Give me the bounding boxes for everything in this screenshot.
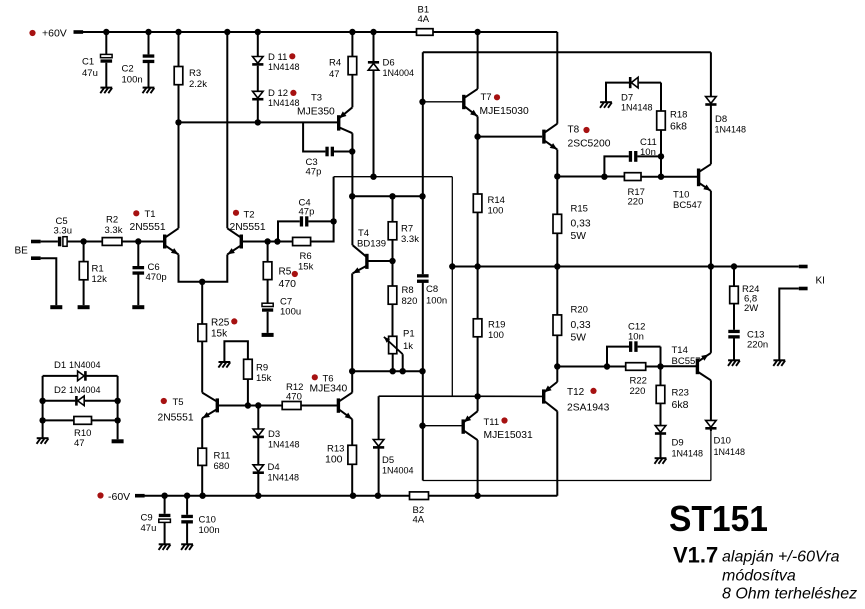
ground below C13 — [728, 359, 740, 361]
svg-text:100n: 100n — [199, 525, 220, 536]
svg-text:T7: T7 — [481, 92, 492, 103]
svg-text:+60V: +60V — [42, 28, 67, 40]
svg-text:BC557: BC557 — [672, 356, 701, 367]
capacitor C9 47u — [164, 496, 166, 514]
svg-text:alapján +/-60Vra: alapján +/-60Vra — [722, 549, 840, 566]
wire T7 emitter to T8 base node — [477, 116, 479, 136]
wire T2 collector to +60V rail — [226, 32, 228, 228]
svg-text:12k: 12k — [92, 274, 108, 285]
wire R12 to T6 base — [301, 405, 337, 407]
resistor R20 0,33 5W — [556, 267, 558, 315]
wire T2 base wire — [241, 241, 292, 243]
svg-text:ST151: ST151 — [669, 498, 768, 539]
wire R6 to feedback riser — [311, 177, 334, 242]
wire T4 emitter column — [351, 273, 353, 392]
wire D1-net right leg — [117, 376, 119, 439]
svg-text:6k8: 6k8 — [670, 121, 687, 133]
svg-text:1N4148: 1N4148 — [268, 440, 300, 450]
svg-text:R9: R9 — [256, 363, 268, 374]
wire T11 collector to -60V rail — [477, 440, 479, 496]
node junction R18 on T10 base wire — [658, 174, 664, 180]
ground below D1-net left leg — [37, 437, 49, 439]
svg-text:1N4148: 1N4148 — [714, 447, 746, 457]
svg-text:470: 470 — [279, 278, 297, 290]
node junction R15 on mid rail — [554, 263, 560, 269]
node junction T11 base on bus — [419, 423, 425, 429]
svg-text:2SA1943: 2SA1943 — [567, 403, 610, 414]
node junction R3/T3-base-wire — [175, 119, 181, 125]
svg-text:C8: C8 — [426, 284, 438, 295]
svg-text:R7: R7 — [401, 224, 413, 235]
wire T8 base wire — [478, 136, 543, 138]
resistor R13 100 — [351, 419, 353, 445]
resistor R1 12k — [83, 242, 85, 262]
diode D12 1N4148 — [253, 91, 264, 98]
wire R18 node to base wire — [660, 156, 662, 176]
wire -60V terminal stub — [135, 494, 145, 498]
svg-text:47p: 47p — [299, 207, 315, 218]
svg-text:3.3k: 3.3k — [105, 225, 123, 236]
wire BE lower terminal stub — [31, 256, 41, 260]
wire T12 collector to -60V rail corner — [556, 411, 558, 495]
node junction R11 on -60V rail — [199, 493, 205, 499]
potentiometer P1 1k — [389, 336, 397, 353]
resistor R11 680 — [201, 418, 203, 448]
node junction C4 on riser — [330, 218, 336, 224]
node junction T10/T14 emitters on mid rail — [708, 263, 714, 269]
svg-text:100: 100 — [325, 454, 343, 466]
svg-text:3.3u: 3.3u — [54, 226, 73, 237]
svg-text:R3: R3 — [189, 68, 201, 79]
wire BE lower stub to ground — [41, 258, 57, 305]
svg-text:4A: 4A — [418, 14, 430, 25]
diode D5 1N4004 — [378, 396, 380, 439]
svg-text:100n: 100n — [122, 75, 143, 86]
svg-text:C10: C10 — [199, 515, 216, 526]
wire -60V rail after fuse — [429, 495, 558, 497]
svg-text:47u: 47u — [82, 68, 98, 79]
svg-text:MJE15031: MJE15031 — [484, 430, 534, 441]
svg-text:T10: T10 — [673, 190, 689, 201]
node junction R20/T12 emitter — [554, 363, 560, 369]
resistor R24 6,8 2W — [733, 267, 735, 287]
svg-text:47: 47 — [329, 69, 340, 80]
svg-text:2W: 2W — [744, 303, 758, 314]
wire feedback drop x452 — [451, 177, 453, 397]
svg-text:1N4148: 1N4148 — [621, 103, 653, 113]
svg-text:2.2k: 2.2k — [189, 79, 207, 90]
node junction R10 right — [114, 417, 120, 423]
wire T1 collector to R3 column — [178, 85, 180, 229]
capacitor C5 3.3u — [58, 237, 61, 247]
svg-text:MJE350: MJE350 — [297, 107, 335, 118]
resistor R22 220 — [626, 363, 646, 371]
wire D12 to T3 base wire — [257, 101, 259, 123]
svg-text:D2: D2 — [54, 385, 66, 396]
node junction T8 emitter / R15 — [554, 173, 560, 179]
svg-text:47: 47 — [74, 438, 85, 449]
wire bias bus below C8 — [422, 283, 424, 481]
svg-text:T8: T8 — [568, 125, 580, 136]
wire +60V rail after fuse — [433, 31, 557, 33]
svg-text:1N4004: 1N4004 — [382, 466, 414, 476]
resistor R6 15k — [293, 237, 311, 245]
svg-text:47p: 47p — [306, 167, 322, 178]
svg-text:15k: 15k — [256, 373, 272, 384]
svg-text:10n: 10n — [628, 332, 644, 343]
node junction D12 on T3 base wire — [255, 119, 261, 125]
svg-text:100: 100 — [488, 206, 504, 217]
wire +60V rail to fuse B1 — [82, 31, 417, 33]
wire KI output terminal stub — [799, 265, 808, 269]
wire BE upper terminal stub — [31, 240, 41, 244]
svg-text:680: 680 — [214, 461, 230, 472]
svg-text:1N4004: 1N4004 — [69, 360, 101, 370]
ground bar below BE lower wire — [50, 305, 62, 309]
svg-text:220n: 220n — [747, 340, 768, 351]
node junction R13 on -60V rail — [350, 493, 356, 499]
svg-text:BE: BE — [15, 245, 29, 256]
resistor R8 820 — [392, 261, 394, 286]
svg-text:220: 220 — [628, 197, 644, 208]
transistor T7 MJE15030 — [462, 95, 465, 109]
node junction C1 on +60V rail — [103, 29, 109, 35]
wire T1 emitter to tail — [179, 255, 228, 282]
wire D11 to D12 — [257, 66, 259, 92]
wire T5 base wire — [217, 405, 282, 407]
svg-text:470: 470 — [286, 392, 302, 403]
diode D9 1N4148 — [655, 426, 666, 433]
node junction R7 top — [389, 193, 395, 199]
svg-text:BC547: BC547 — [673, 200, 702, 211]
svg-text:3.3k: 3.3k — [401, 234, 419, 245]
wire T3 base wire — [179, 121, 338, 123]
node junction C12 branch left — [604, 363, 610, 369]
svg-text:KI: KI — [816, 276, 825, 287]
svg-text:R14: R14 — [488, 195, 505, 206]
svg-text:5W: 5W — [571, 231, 587, 242]
svg-text:470p: 470p — [146, 272, 167, 283]
resistor R23 6k8 — [660, 367, 662, 386]
capacitor C12 10n — [607, 347, 629, 367]
svg-text:R20: R20 — [571, 305, 588, 316]
node junction P1 wiper — [400, 368, 406, 374]
svg-text:1k: 1k — [403, 341, 413, 352]
node junction y197 on bus — [419, 193, 425, 199]
svg-text:100: 100 — [488, 330, 504, 341]
svg-text:R4: R4 — [329, 58, 341, 69]
wire bias bus right lower leg — [710, 429, 712, 480]
wire R20 node to R22 — [557, 366, 625, 368]
wire T14 emitter to mid rail — [710, 267, 712, 353]
svg-text:15k: 15k — [298, 262, 314, 273]
svg-text:1N4004: 1N4004 — [383, 68, 415, 78]
svg-text:T4: T4 — [358, 228, 369, 239]
node junction R14 on mid rail — [474, 263, 480, 269]
svg-text:C9: C9 — [141, 513, 153, 524]
capacitor C3 47p — [303, 122, 325, 151]
svg-text:1N4148: 1N4148 — [268, 98, 300, 108]
resistor R4 47 — [351, 32, 353, 57]
transistor T4 BD139 — [365, 254, 368, 269]
resistor R7 3.3k — [392, 196, 394, 222]
wire T12 emitter up — [556, 367, 558, 382]
node junction T7 collector on rail — [474, 29, 480, 35]
svg-text:T1: T1 — [145, 209, 156, 220]
wire T12 base wire y396 — [379, 395, 544, 397]
svg-text:-60V: -60V — [108, 491, 130, 503]
svg-text:C2: C2 — [122, 64, 134, 75]
svg-text:2N5551: 2N5551 — [130, 222, 166, 233]
svg-text:BD139: BD139 — [357, 239, 386, 250]
wire T10 emitter to mid rail — [710, 191, 712, 267]
svg-text:15k: 15k — [211, 329, 228, 340]
svg-text:820: 820 — [402, 296, 418, 307]
svg-text:T12: T12 — [567, 387, 585, 398]
node junction D5 on -60V rail — [375, 493, 381, 499]
ground below D9 — [655, 457, 667, 459]
svg-text:T2: T2 — [244, 210, 255, 221]
node junction D2 right — [114, 398, 120, 404]
node junction R18/C11 — [658, 153, 664, 159]
node -60V supply rail label — [97, 492, 103, 498]
wire R17 to T10 base — [641, 176, 697, 178]
capacitor C8 100n — [417, 274, 429, 277]
svg-text:T3: T3 — [311, 93, 322, 104]
svg-text:R22: R22 — [630, 376, 647, 387]
wire T8 collector to +60V rail corner — [556, 32, 558, 124]
wire +60V terminal stub — [74, 30, 84, 34]
node junction C5/R2/R1 — [80, 238, 86, 244]
svg-text:R8: R8 — [402, 285, 414, 296]
wire output mid rail — [452, 266, 799, 268]
resistor R2 3.3k — [102, 238, 122, 246]
svg-text:6k8: 6k8 — [672, 399, 689, 411]
node junction C4 branch on base wire — [274, 238, 280, 244]
diode D8 1N4148 — [710, 52, 712, 96]
diode D7 1N4148 — [606, 83, 630, 102]
svg-text:1N4148: 1N4148 — [715, 125, 747, 135]
svg-text:10n: 10n — [640, 147, 656, 158]
ground below C10 — [181, 543, 193, 545]
node junction C2 on +60V rail — [145, 29, 151, 35]
transistor T8 2SC5200 — [542, 130, 545, 144]
svg-text:D8: D8 — [715, 114, 727, 125]
node junction P1 bottom — [390, 368, 396, 374]
ground bar below D1-net right leg — [112, 439, 124, 443]
node junction feedback on mid rail — [449, 263, 455, 269]
node junction C9 on -60V rail — [161, 493, 167, 499]
node junction R7/R8/T4-base — [389, 258, 395, 264]
node junction T7 base on bus — [419, 99, 425, 105]
svg-text:5W: 5W — [571, 333, 587, 344]
svg-text:V1.7: V1.7 — [673, 543, 718, 568]
wire -60V rail to fuse B2 — [145, 495, 410, 497]
transistor T1 2N5551 — [163, 235, 166, 249]
wire KI return to ground — [779, 289, 799, 361]
diode D6 1N4004 — [373, 32, 375, 61]
fuse B1 4A — [417, 29, 434, 36]
transistor T5 2N5551 — [216, 398, 219, 412]
resistor R15 0,33 5W — [556, 176, 558, 214]
svg-text:1N4148: 1N4148 — [268, 473, 300, 483]
transistor T6 MJE340 — [337, 398, 340, 412]
diode D11 1N4148 — [257, 32, 259, 57]
svg-text:220: 220 — [630, 386, 646, 397]
node junction R4 on +60V rail — [349, 29, 355, 35]
svg-text:D9: D9 — [672, 438, 684, 449]
svg-text:R19: R19 — [488, 320, 505, 331]
node junction tail/R25 — [199, 279, 205, 285]
svg-text:D5: D5 — [382, 455, 394, 466]
capacitor C4 47p — [277, 221, 299, 241]
svg-text:MJE340: MJE340 — [310, 384, 348, 395]
svg-text:módosítva: módosítva — [722, 568, 796, 585]
resistor R5 470 — [267, 242, 269, 262]
ground below C2 — [143, 87, 155, 89]
svg-text:0,33: 0,33 — [571, 320, 591, 331]
svg-text:D10: D10 — [714, 436, 731, 447]
node junction D6 on feedback wire — [370, 174, 376, 180]
diode D1 — [43, 375, 78, 377]
ground bar below R1 — [78, 305, 90, 309]
ground bar below C7 — [262, 333, 274, 337]
wire T3 collector column — [351, 133, 353, 245]
transistor T12 2SA1943 — [542, 389, 545, 403]
resistor R9 15k — [219, 361, 231, 363]
resistor R18 6k8 — [660, 83, 662, 111]
wire R22 to R23 node — [646, 366, 661, 368]
resistor R25 15k — [201, 282, 203, 324]
resistor R17 220 — [624, 173, 641, 181]
node junction T7 emitter / T8 base — [474, 133, 480, 139]
capacitor C7 100u — [262, 303, 273, 306]
wire y371 wire to bus — [352, 370, 422, 372]
svg-text:D6: D6 — [383, 58, 395, 69]
wire KI lower terminal stub — [799, 287, 808, 291]
svg-text:0,33: 0,33 — [571, 219, 591, 230]
transistor T3 MJE350 — [337, 115, 340, 130]
resistor R19 100 — [477, 267, 479, 319]
node junction T4 emitter on y371 wire — [349, 368, 355, 374]
node junction D11 on +60V rail — [255, 29, 261, 35]
svg-text:R25: R25 — [211, 318, 230, 329]
node junction R5 on base wire — [264, 238, 270, 244]
node +60V supply rail label — [29, 30, 35, 36]
capacitor C2 100n — [148, 32, 150, 54]
node junction D4 on -60V rail — [255, 493, 261, 499]
ground below D7 — [600, 101, 612, 103]
svg-text:MJE15030: MJE15030 — [480, 106, 530, 117]
wire T8 emitter node to R17 — [557, 176, 624, 178]
wire C12 right drop — [660, 347, 662, 367]
svg-text:1N4148: 1N4148 — [268, 62, 300, 72]
node junction T11 collector on -60V rail — [474, 493, 480, 499]
svg-text:1N4148: 1N4148 — [672, 449, 704, 459]
svg-text:R18: R18 — [670, 110, 687, 121]
svg-text:2SC5200: 2SC5200 — [568, 139, 611, 150]
svg-text:100u: 100u — [280, 307, 301, 318]
wire BE upper stub to C5 — [41, 241, 58, 243]
wire bias bus bottom edge — [423, 480, 711, 482]
wire T14 collector to D10 — [710, 380, 712, 420]
node junction T2 collector on rail — [224, 29, 230, 35]
node junction R10 left — [39, 417, 45, 423]
svg-text:8 Ohm terheléshez: 8 Ohm terheléshez — [722, 586, 857, 603]
diode D10 1N4148 — [706, 420, 717, 427]
transistor T10 BC547 — [697, 169, 700, 187]
svg-text:1N4004: 1N4004 — [69, 385, 101, 395]
svg-text:R2: R2 — [106, 215, 118, 226]
diode D3 1N4148 — [257, 406, 259, 430]
wire feedback wire y177 — [334, 176, 453, 178]
node junction C3 on T3 collector — [349, 148, 355, 154]
resistor R12 470 — [282, 402, 301, 410]
diode D4 1N4148 — [257, 438, 259, 465]
wire T8 emitter down — [556, 150, 558, 177]
svg-text:D3: D3 — [268, 429, 280, 440]
transistor T2 2N5551 — [240, 235, 243, 249]
svg-text:R5: R5 — [279, 267, 292, 278]
node junction C11 branch on y177 wire — [601, 174, 607, 180]
node junction R9 on T5 base wire — [245, 402, 251, 408]
wire bias bus left edge — [422, 52, 424, 274]
node junction R19/T12-base-wire — [474, 393, 480, 399]
ground below C1 — [100, 87, 112, 89]
wire C5 to R2/R1 node — [67, 241, 102, 243]
wire T7 collector to +60V rail — [477, 32, 479, 89]
wire R2 to T1 base — [122, 241, 163, 243]
capacitor C10 100n — [186, 496, 188, 515]
node junction C10 on -60V rail — [184, 493, 190, 499]
node junction D2 left — [39, 398, 45, 404]
diode D2 — [43, 400, 76, 402]
svg-text:R6: R6 — [300, 251, 312, 262]
capacitor C1 47u — [105, 32, 107, 54]
svg-text:T5: T5 — [173, 397, 184, 408]
svg-text:100n: 100n — [426, 296, 447, 307]
node junction D3 on T5 base wire — [255, 402, 261, 408]
node junction y371 on bus — [419, 368, 425, 374]
wire D1-net left leg — [42, 376, 44, 438]
transistor T14 BC557 — [696, 359, 699, 375]
svg-text:D1: D1 — [54, 360, 66, 371]
node junction R24 on mid rail — [731, 263, 737, 269]
node junction D6 on +60V rail — [370, 29, 376, 35]
svg-text:R1: R1 — [92, 264, 104, 275]
node junction R2/C6/T1-base — [135, 238, 141, 244]
ground bar below C6 — [132, 305, 144, 309]
svg-text:C1: C1 — [82, 57, 94, 68]
svg-text:47u: 47u — [141, 523, 157, 534]
svg-text:T14: T14 — [672, 345, 688, 356]
resistor R14 100 — [477, 137, 479, 194]
node junction R3 on +60V rail — [175, 29, 181, 35]
capacitor C13 220n — [728, 330, 739, 333]
svg-text:D4: D4 — [268, 462, 280, 473]
fuse B2 4A — [410, 492, 429, 500]
node junction R22/R23/T14-base — [657, 363, 663, 369]
svg-text:T11: T11 — [484, 417, 500, 428]
svg-text:2N5551: 2N5551 — [230, 222, 266, 233]
wire y197 bias wire — [352, 195, 422, 197]
wire bias bus top edge — [423, 51, 711, 53]
capacitor C6 470p — [137, 242, 139, 267]
resistor R3 2.2k — [178, 32, 180, 67]
transistor T11 MJE15031 — [462, 419, 465, 433]
node junction y197 on T3 collector — [349, 193, 355, 199]
capacitor C11 10n — [604, 156, 628, 176]
